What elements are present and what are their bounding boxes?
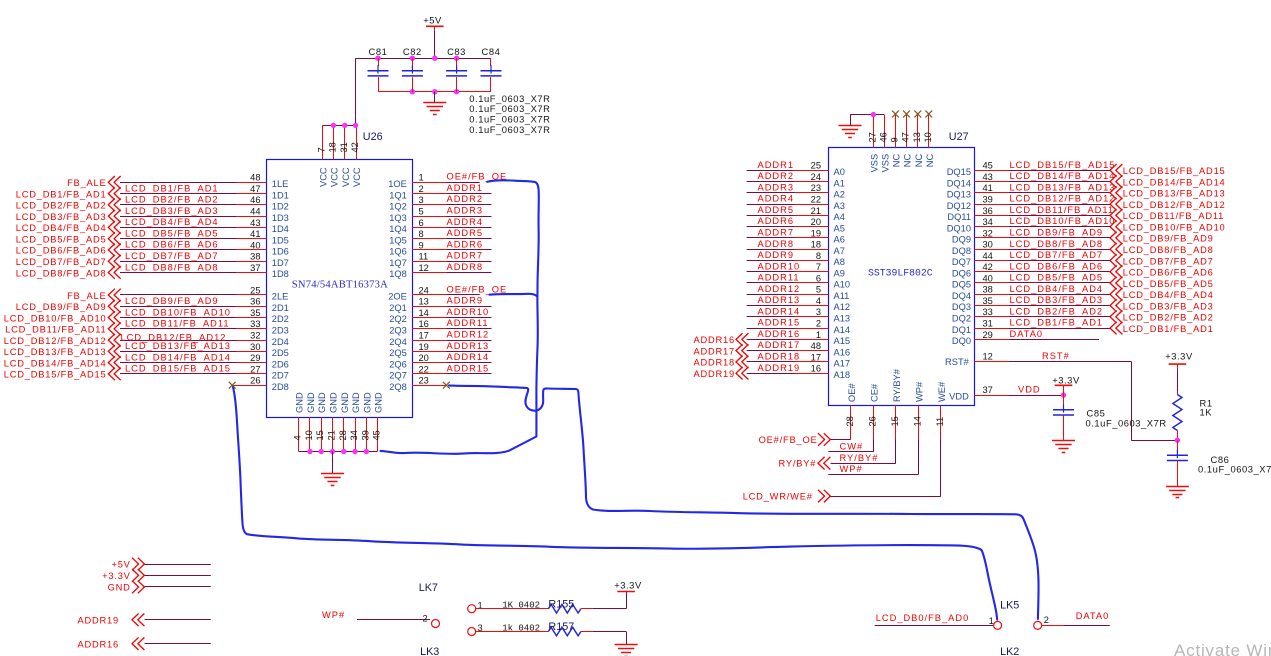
net label RST# <box>1042 351 1070 361</box>
port ADDR16 <box>694 333 749 346</box>
net label LCD_DB1/FB_AD1 <box>125 183 219 193</box>
port ADDR17 <box>694 344 749 357</box>
svg-text:41: 41 <box>250 229 260 239</box>
net label DATA0 <box>1076 611 1110 621</box>
U27 pin 17 wire <box>747 352 829 362</box>
net label ADDR9 <box>758 250 795 260</box>
U27 pin 26 CE# wire <box>867 406 877 452</box>
svg-text:WE#: WE# <box>937 381 947 402</box>
wire cap bottom rail <box>378 91 491 93</box>
svg-text:LCD_DB14/FB_AD14: LCD_DB14/FB_AD14 <box>1010 171 1116 181</box>
svg-text:ADDR10: ADDR10 <box>758 261 801 271</box>
svg-text:VCC: VCC <box>341 167 351 187</box>
svg-text:48: 48 <box>811 341 821 351</box>
svg-text:46: 46 <box>250 195 260 205</box>
svg-text:CW#: CW# <box>840 442 864 452</box>
U26 pin 14 wire <box>412 308 491 318</box>
svg-text:DQ5: DQ5 <box>952 280 971 290</box>
net label ADDR10 <box>447 307 490 317</box>
svg-text:1: 1 <box>419 173 424 183</box>
svg-text:9: 9 <box>419 240 424 250</box>
svg-text:LCD_DB4/FB_AD4: LCD_DB4/FB_AD4 <box>1010 284 1104 294</box>
svg-text:LCD_DB15/FB_AD15: LCD_DB15/FB_AD15 <box>4 370 107 380</box>
svg-text:LCD_DB12/FB_AD12: LCD_DB12/FB_AD12 <box>1123 200 1226 210</box>
svg-text:OE#: OE# <box>847 383 857 402</box>
svg-text:25: 25 <box>811 161 821 171</box>
svg-text:LCD_DB15/FB_AD15: LCD_DB15/FB_AD15 <box>1123 166 1226 176</box>
U27 pin 38 wire <box>974 285 1110 295</box>
svg-text:A4: A4 <box>834 212 845 222</box>
net label LCD_DB12/FB_AD12 <box>121 333 227 343</box>
svg-text:LCD_DB10/FB_AD10: LCD_DB10/FB_AD10 <box>1010 216 1116 226</box>
net label LCD_DB8/FB_AD8 <box>125 262 219 272</box>
wire GND <box>145 586 211 588</box>
port LCD_DB7/FB_AD7 <box>1110 254 1214 267</box>
svg-text:VDD: VDD <box>949 391 969 401</box>
svg-text:ADDR5: ADDR5 <box>447 228 484 238</box>
U27 pin 48 wire <box>747 341 829 351</box>
svg-text:2: 2 <box>816 319 821 329</box>
svg-text:LCD_DB1/FB_AD1: LCD_DB1/FB_AD1 <box>1010 318 1104 328</box>
port LCD_DB1/FB_AD1 <box>1110 322 1214 335</box>
net label ADDR5 <box>447 228 484 238</box>
svg-text:LCD_DB4/FB_AD4: LCD_DB4/FB_AD4 <box>1123 290 1214 300</box>
svg-text:40: 40 <box>983 273 993 283</box>
svg-text:LCD_DB5/FB_AD5: LCD_DB5/FB_AD5 <box>16 235 107 245</box>
net label CW# <box>840 442 864 452</box>
svg-text:9: 9 <box>889 137 899 142</box>
svg-text:VCC: VCC <box>329 167 339 187</box>
svg-text:RY/BY#: RY/BY# <box>840 453 879 463</box>
no-connect X on U26 pin 23 <box>443 382 450 389</box>
svg-text:24: 24 <box>419 285 429 295</box>
svg-text:1Q8: 1Q8 <box>389 269 407 279</box>
svg-text:ADDR17: ADDR17 <box>758 340 801 350</box>
U26 pin 38 wire <box>120 252 266 262</box>
svg-text:NC: NC <box>914 154 924 168</box>
U27 pin 20 wire <box>747 217 829 227</box>
U27 pin 43 wire <box>974 172 1110 182</box>
resistor R155 <box>476 604 593 613</box>
U27 pin 31 wire <box>974 319 1110 329</box>
svg-text:2Q4: 2Q4 <box>389 337 407 347</box>
ground symbol cap bank <box>423 92 446 115</box>
capacitor C83 <box>446 46 467 92</box>
svg-text:A15: A15 <box>834 336 851 346</box>
svg-text:DQ11: DQ11 <box>947 212 971 222</box>
svg-text:LCD_DB11/FB_AD11: LCD_DB11/FB_AD11 <box>1123 211 1224 221</box>
junction dots VCC rail <box>331 123 359 128</box>
svg-text:LCD_DB11/FB_AD11: LCD_DB11/FB_AD11 <box>125 319 230 329</box>
port LCD_DB5/FB_AD5 <box>16 232 121 245</box>
svg-text:ADDR10: ADDR10 <box>447 307 490 317</box>
LK7 pin 2 <box>423 614 440 628</box>
svg-text:2D6: 2D6 <box>272 359 289 369</box>
U27 pin 39 wire <box>974 195 1110 205</box>
net label ADDR12 <box>758 284 801 294</box>
svg-text:LCD_WR/WE#: LCD_WR/WE# <box>743 492 813 502</box>
capacitor values 0.1uF_0603_X7R <box>469 93 550 135</box>
svg-text:1Q3: 1Q3 <box>389 213 407 223</box>
svg-text:A3: A3 <box>834 201 845 211</box>
port LCD_DB1/FB_AD1 <box>16 187 121 200</box>
net label ADDR3 <box>758 182 795 192</box>
svg-text:1D3: 1D3 <box>272 213 289 223</box>
svg-text:43: 43 <box>983 172 993 182</box>
port LCD_DB12/FB_AD12 <box>1110 198 1226 211</box>
svg-text:34: 34 <box>349 430 359 440</box>
svg-text:WP#: WP# <box>840 464 863 474</box>
U26 pin 47 wire <box>120 184 266 194</box>
net label ADDR18 <box>758 352 801 362</box>
svg-text:1D7: 1D7 <box>272 258 289 268</box>
svg-text:A1: A1 <box>834 178 845 188</box>
U27 NC pins <box>896 114 929 148</box>
U27 pin 28 OE# wire <box>845 406 855 440</box>
svg-text:LCD_DB1/FB_AD1: LCD_DB1/FB_AD1 <box>125 183 219 193</box>
svg-text:5: 5 <box>816 285 821 295</box>
svg-text:DQ1: DQ1 <box>952 325 971 335</box>
wire WP# to LK7 pin 2 <box>357 619 430 621</box>
svg-text:21: 21 <box>811 206 821 216</box>
svg-text:1K: 1K <box>1200 407 1213 418</box>
svg-text:10: 10 <box>923 132 933 142</box>
C86 labels <box>1198 454 1271 475</box>
svg-text:LCD_DB14/FB_AD14: LCD_DB14/FB_AD14 <box>4 358 107 368</box>
net label LCD_DB0/FB_AD0 <box>876 613 970 623</box>
port OE#/FB_OE <box>759 433 831 446</box>
port FB_ALE <box>67 289 121 302</box>
U26 pin 44 wire <box>120 207 266 217</box>
svg-text:23: 23 <box>811 183 821 193</box>
svg-text:ADDR9: ADDR9 <box>758 250 795 260</box>
net label ADDR2 <box>447 194 484 204</box>
svg-text:DQ10: DQ10 <box>947 223 971 233</box>
U27 bottom pin labels <box>847 368 947 402</box>
capacitor C81 <box>368 46 389 92</box>
svg-text:42: 42 <box>983 262 993 272</box>
svg-text:18: 18 <box>811 240 821 250</box>
svg-text:41: 41 <box>983 183 993 193</box>
net label LCD_DB4/FB_AD4 <box>1010 284 1104 294</box>
svg-text:GND: GND <box>317 392 327 413</box>
svg-text:NC: NC <box>891 154 901 168</box>
svg-text:ADDR12: ADDR12 <box>758 284 801 294</box>
svg-text:LCD_DB9/FB_AD9: LCD_DB9/FB_AD9 <box>125 296 219 306</box>
svg-text:LCD_DB12/FB_AD12: LCD_DB12/FB_AD12 <box>4 336 107 346</box>
port RY/BY# <box>778 457 830 470</box>
svg-text:2Q2: 2Q2 <box>389 314 407 324</box>
svg-text:LCD_DB5/FB_AD5: LCD_DB5/FB_AD5 <box>1010 273 1104 283</box>
U26 pin 5 wire <box>412 207 491 217</box>
svg-text:27: 27 <box>250 364 260 374</box>
junction dot VDD node <box>1061 392 1066 397</box>
svg-text:GND: GND <box>340 392 350 413</box>
wire RY/BY# to pin 15 <box>831 463 896 465</box>
U27 pin 14 WP# wire <box>912 406 922 475</box>
svg-text:38: 38 <box>983 285 993 295</box>
svg-text:LCD_DB1/FB_AD1: LCD_DB1/FB_AD1 <box>16 189 107 199</box>
svg-text:ADDR19: ADDR19 <box>758 363 801 373</box>
svg-text:ADDR3: ADDR3 <box>447 206 484 216</box>
U26 pin 22 wire <box>412 364 491 374</box>
port GND <box>108 581 145 594</box>
svg-text:LK3: LK3 <box>420 646 439 656</box>
svg-text:LCD_DB6/FB_AD6: LCD_DB6/FB_AD6 <box>125 240 219 250</box>
svg-text:29: 29 <box>250 353 260 363</box>
svg-text:LCD_DB9/FB_AD9: LCD_DB9/FB_AD9 <box>1010 228 1104 238</box>
U27 pin 37 VDD wire <box>974 385 1063 395</box>
U27 pin 11 WE# wire <box>935 406 945 497</box>
svg-text:44: 44 <box>250 207 260 217</box>
U27 pin 32 wire <box>974 228 1110 238</box>
svg-text:A11: A11 <box>834 291 850 301</box>
svg-text:2Q3: 2Q3 <box>389 326 407 336</box>
svg-text:23: 23 <box>419 376 429 386</box>
svg-text:LCD_DB2/FB_AD2: LCD_DB2/FB_AD2 <box>16 201 107 211</box>
U26 pin 35 wire <box>120 308 266 318</box>
svg-text:ADDR3: ADDR3 <box>758 182 795 192</box>
U27 pin 45 wire <box>974 161 1110 171</box>
svg-text:LCD_DB13/FB_AD13: LCD_DB13/FB_AD13 <box>1010 182 1116 192</box>
U27 pin 5 wire <box>747 285 829 295</box>
latch U26 body <box>267 160 413 418</box>
wire ADDR19 <box>145 619 211 621</box>
U27 pin 29 wire <box>974 330 1099 340</box>
R1 labels <box>1200 398 1213 418</box>
junction dot VSS rail <box>871 112 876 117</box>
port ADDR19 <box>78 614 145 627</box>
U26 pin 1 wire <box>412 173 480 183</box>
svg-text:LCD_DB6/FB_AD6: LCD_DB6/FB_AD6 <box>16 246 107 256</box>
svg-text:ADDR14: ADDR14 <box>447 352 490 362</box>
port LCD_DB13/FB_AD13 <box>1110 187 1226 200</box>
svg-text:LCD_DB7/FB_AD7: LCD_DB7/FB_AD7 <box>1123 256 1214 266</box>
U26 VCC pin labels <box>319 167 362 187</box>
svg-text:13: 13 <box>912 132 922 142</box>
svg-text:12: 12 <box>983 352 993 362</box>
svg-text:LCD_DB5/FB_AD5: LCD_DB5/FB_AD5 <box>1123 279 1214 289</box>
U26 VCC pins top wires <box>323 58 357 159</box>
svg-text:ADDR19: ADDR19 <box>78 616 119 626</box>
svg-text:6: 6 <box>419 218 424 228</box>
svg-text:28: 28 <box>338 430 348 440</box>
flash memory U27 body <box>829 148 975 406</box>
svg-text:13: 13 <box>419 297 429 307</box>
svg-text:A9: A9 <box>834 268 845 278</box>
svg-text:LCD_DB7/FB_AD7: LCD_DB7/FB_AD7 <box>125 251 219 261</box>
U27 pin 18 wire <box>747 240 829 250</box>
svg-text:16: 16 <box>419 319 429 329</box>
svg-text:1Q2: 1Q2 <box>389 202 407 212</box>
U27 part value SST39LF802C <box>868 268 933 279</box>
net label LCD_DB3/FB_AD3 <box>125 206 219 216</box>
svg-text:33: 33 <box>250 319 260 329</box>
net label ADDR6 <box>447 239 484 249</box>
svg-text:DATA0: DATA0 <box>1076 611 1110 621</box>
U27 pin 23 wire <box>747 183 829 193</box>
R157 labels <box>502 621 574 633</box>
U26 pin 8 wire <box>412 229 491 239</box>
port LCD_DB13/FB_AD13 <box>4 345 121 358</box>
wire OE# to pin 28 <box>831 439 851 441</box>
svg-text:ADDR5: ADDR5 <box>758 205 795 215</box>
R155 pin 1 circle <box>468 601 483 613</box>
net label ADDR5 <box>758 205 795 215</box>
svg-text:22: 22 <box>419 364 429 374</box>
power +3.3V symbol at VDD <box>1052 375 1080 396</box>
svg-text:A8: A8 <box>834 257 845 267</box>
svg-text:31: 31 <box>983 319 993 329</box>
svg-text:1k 0402: 1k 0402 <box>502 623 540 633</box>
svg-text:FB_ALE: FB_ALE <box>67 291 106 301</box>
U27 pin 12 RST# wire <box>974 352 1177 441</box>
svg-text:DQ4: DQ4 <box>952 291 971 301</box>
svg-text:2Q5: 2Q5 <box>389 348 407 358</box>
net label ADDR12 <box>447 330 490 340</box>
net label LCD_DB7/FB_AD7 <box>125 251 219 261</box>
svg-text:46: 46 <box>878 132 888 142</box>
svg-text:LCD_DB13/FB_AD13: LCD_DB13/FB_AD13 <box>125 341 231 351</box>
port LCD_DB2/FB_AD2 <box>16 199 121 212</box>
net label LCD_DB13/FB_AD13 <box>1010 182 1116 192</box>
svg-text:2Q1: 2Q1 <box>389 303 407 313</box>
svg-text:SST39LF802C: SST39LF802C <box>868 268 933 279</box>
svg-text:21: 21 <box>327 430 337 440</box>
svg-text:VSS: VSS <box>880 154 890 173</box>
svg-text:8: 8 <box>816 251 821 261</box>
svg-text:DQ12: DQ12 <box>947 201 971 211</box>
svg-text:LCD_DB9/FB_AD9: LCD_DB9/FB_AD9 <box>1123 234 1214 244</box>
wire R157 to ground <box>593 632 627 645</box>
svg-text:32: 32 <box>983 228 993 238</box>
port LCD_DB5/FB_AD5 <box>1110 277 1214 290</box>
net label ADDR8 <box>447 262 484 272</box>
svg-text:43: 43 <box>250 218 260 228</box>
svg-text:A14: A14 <box>834 325 851 335</box>
blue wire pin23 to LK5 pin2 <box>449 385 1039 619</box>
svg-text:LCD_DB10/FB_AD10: LCD_DB10/FB_AD10 <box>125 307 231 317</box>
svg-text:R157: R157 <box>548 621 574 633</box>
capacitor C84 <box>481 46 502 92</box>
port LCD_DB3/FB_AD3 <box>16 210 121 223</box>
svg-text:2D3: 2D3 <box>272 326 289 336</box>
capacitor C86 <box>1167 440 1188 486</box>
svg-text:A0: A0 <box>834 167 845 177</box>
wire cap top rail <box>356 58 491 60</box>
svg-text:1Q1: 1Q1 <box>389 190 407 200</box>
U26 pin 6 wire <box>412 218 491 228</box>
svg-text:DQ0: DQ0 <box>952 336 971 346</box>
wire +3.3V <box>145 575 211 577</box>
svg-text:LCD_DB2/FB_AD2: LCD_DB2/FB_AD2 <box>125 195 219 205</box>
svg-text:2: 2 <box>419 184 424 194</box>
net label ADDR15 <box>447 363 490 373</box>
net label ADDR11 <box>447 318 489 328</box>
svg-text:A17: A17 <box>834 359 851 369</box>
svg-text:45: 45 <box>983 161 993 171</box>
U26 pin 37 wire <box>120 263 266 273</box>
svg-text:LCD_DB12/FB_AD12: LCD_DB12/FB_AD12 <box>1010 194 1116 204</box>
svg-text:LCD_DB3/FB_AD3: LCD_DB3/FB_AD3 <box>1123 301 1214 311</box>
LK5 reference <box>1000 600 1019 612</box>
no-connect X on U26 pin 26 <box>229 382 236 389</box>
net label LCD_DB2/FB_AD2 <box>1010 306 1104 316</box>
wire R155 to +3.3V <box>593 592 627 609</box>
U26 pin 24 wire <box>412 285 480 295</box>
svg-text:7: 7 <box>317 147 327 152</box>
net label LCD_DB1/FB_AD1 <box>1010 318 1104 328</box>
svg-text:18: 18 <box>327 142 337 152</box>
U26 pin 43 wire <box>120 218 266 228</box>
port LCD_DB8/FB_AD8 <box>1110 243 1214 256</box>
svg-text:C82: C82 <box>403 46 422 57</box>
port LCD_DB15/FB_AD15 <box>1110 164 1226 177</box>
svg-text:24: 24 <box>811 172 821 182</box>
svg-text:1D8: 1D8 <box>272 269 289 279</box>
net label LCD_DB9/FB_AD9 <box>125 296 219 306</box>
U26 pin 46 wire <box>120 195 266 205</box>
net label LCD_DB11/FB_AD11 <box>125 319 230 329</box>
svg-text:+5V: +5V <box>423 15 442 26</box>
svg-text:LCD_DB15/FB_AD15: LCD_DB15/FB_AD15 <box>1010 160 1116 170</box>
U27 pin 24 wire <box>747 172 829 182</box>
svg-text:4: 4 <box>816 296 821 306</box>
U26 pin 9 wire <box>412 240 491 250</box>
net label LCD_DB4/FB_AD4 <box>125 217 219 227</box>
LK3 reference <box>420 646 439 656</box>
U26 GND pin numbers <box>293 430 382 440</box>
svg-text:19: 19 <box>419 342 429 352</box>
svg-text:2D4: 2D4 <box>272 337 289 347</box>
svg-text:ADDR13: ADDR13 <box>758 295 801 305</box>
wire DATA0 <box>1042 625 1110 627</box>
svg-text:ADDR7: ADDR7 <box>447 251 484 261</box>
svg-text:0.1uF_0603_X7R: 0.1uF_0603_X7R <box>1198 464 1271 475</box>
svg-text:14: 14 <box>912 416 922 426</box>
svg-text:ADDR9: ADDR9 <box>447 296 484 306</box>
U27 pin 36 wire <box>974 206 1110 216</box>
net label ADDR14 <box>758 306 801 316</box>
net label LCD_DB9/FB_AD9 <box>1010 228 1104 238</box>
svg-text:40: 40 <box>250 240 260 250</box>
net label LCD_DB6/FB_AD6 <box>1010 261 1104 271</box>
capacitor C85 <box>1053 395 1074 441</box>
svg-text:GND: GND <box>295 392 305 413</box>
U27 pin 1 wire <box>747 330 829 340</box>
svg-text:ADDR1: ADDR1 <box>758 160 795 170</box>
svg-text:2OE: 2OE <box>388 292 407 302</box>
U26 reference designator <box>363 131 383 143</box>
svg-text:28: 28 <box>845 416 855 426</box>
svg-text:1D5: 1D5 <box>272 235 289 245</box>
net label ADDR11 <box>758 273 800 283</box>
wire ADDR16 <box>145 643 211 645</box>
port LCD_DB9/FB_AD9 <box>16 300 121 313</box>
svg-text:WP#: WP# <box>322 610 345 620</box>
svg-text:LCD_DB13/FB_AD13: LCD_DB13/FB_AD13 <box>1123 189 1226 199</box>
U26 GND pins bottom wires <box>299 418 378 452</box>
wire +5V feed <box>434 31 436 58</box>
U26 pin 19 wire <box>412 342 491 352</box>
svg-text:ADDR4: ADDR4 <box>447 217 484 227</box>
svg-text:ADDR17: ADDR17 <box>694 346 735 356</box>
svg-text:37: 37 <box>983 385 993 395</box>
U26 pin 25 wire <box>120 285 266 295</box>
svg-text:GND: GND <box>351 392 361 413</box>
net label RY/BY# <box>840 453 879 463</box>
svg-text:GND: GND <box>329 392 339 413</box>
